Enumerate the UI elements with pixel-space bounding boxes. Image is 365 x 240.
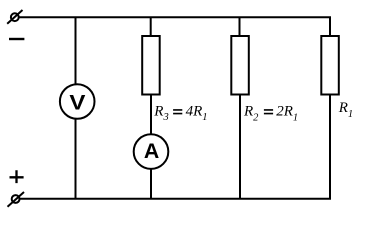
- svg-text:A: A: [144, 139, 159, 163]
- svg-text:V: V: [69, 90, 85, 114]
